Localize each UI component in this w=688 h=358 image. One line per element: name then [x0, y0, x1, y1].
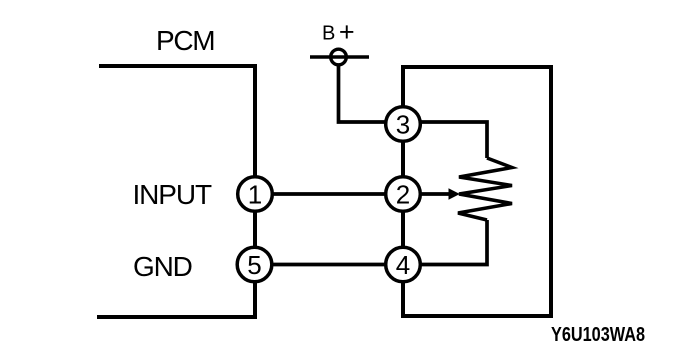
pin circle 5	[237, 247, 272, 282]
svg-text:2: 2	[396, 180, 410, 210]
wire pin5 to pin4	[270, 263, 395, 267]
wiper arrow from pin 2	[418, 192, 450, 196]
svg-text:3: 3	[396, 110, 410, 140]
resistor (potentiometer element)	[458, 158, 512, 220]
wire pin3 to resistor top	[415, 122, 487, 158]
svg-text:4: 4	[396, 250, 410, 280]
PCM box (open left side)	[97, 66, 255, 317]
svg-text:Y6U103WA8: Y6U103WA8	[551, 324, 645, 346]
wire B+ horizontal bus	[310, 55, 369, 59]
svg-text:PCM: PCM	[156, 25, 214, 56]
sensor box	[403, 67, 551, 316]
wire B+ to pin 3	[339, 64, 397, 122]
svg-text:INPUT: INPUT	[133, 179, 212, 210]
pin circle 3	[386, 107, 421, 142]
pin circle 4	[386, 247, 421, 282]
pin circle 1	[238, 177, 273, 212]
wire pin1 to pin2	[270, 192, 395, 196]
wire resistor bottom to pin4	[415, 220, 487, 265]
svg-text:1: 1	[248, 180, 262, 210]
connector B+ circle	[331, 49, 347, 65]
svg-text:5: 5	[247, 250, 261, 280]
svg-text:GND: GND	[133, 251, 192, 282]
pin circle 2	[386, 177, 421, 212]
